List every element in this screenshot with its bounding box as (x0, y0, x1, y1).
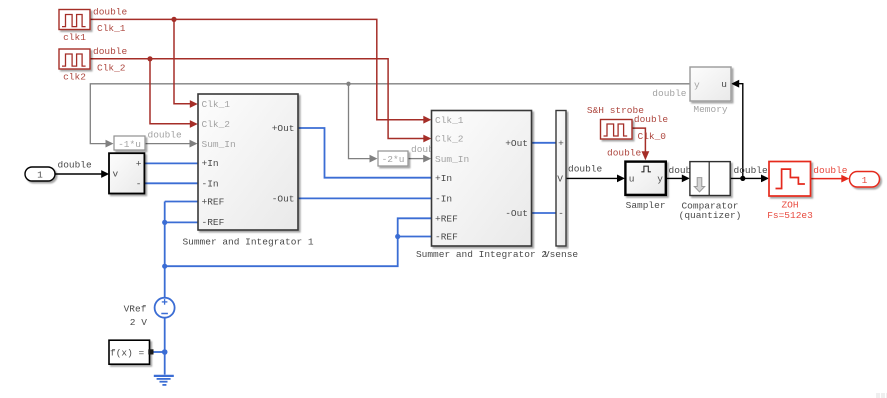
svg-text:+Out: +Out (505, 138, 528, 149)
svg-text:y: y (657, 173, 663, 184)
svg-text:+REF: +REF (435, 214, 458, 225)
svg-text:Summer and Integrator 2: Summer and Integrator 2 (416, 249, 547, 260)
svg-text:+In: +In (202, 158, 219, 169)
svg-text:Clk_1: Clk_1 (97, 23, 126, 34)
svg-text:-: - (558, 208, 564, 219)
svg-text:+: + (558, 138, 564, 149)
svg-text:-In: -In (435, 194, 452, 205)
svg-text:clk2: clk2 (63, 72, 86, 83)
svg-text:-: - (136, 178, 142, 189)
svg-text:1: 1 (862, 175, 868, 186)
svg-text:double: double (93, 46, 128, 57)
svg-text:+Out: +Out (272, 123, 295, 134)
svg-text:+REF: +REF (202, 197, 225, 208)
svg-text:-REF: -REF (435, 232, 458, 243)
svg-text:-Out: -Out (505, 208, 528, 219)
svg-text:v: v (113, 169, 119, 180)
svg-text:Clk_0: Clk_0 (638, 131, 667, 142)
svg-text:Sum_In: Sum_In (202, 139, 236, 150)
svg-text:VRef: VRef (124, 303, 147, 314)
svg-text:y: y (694, 80, 700, 91)
svg-text:Summer and Integrator 1: Summer and Integrator 1 (182, 236, 313, 247)
svg-text:V: V (557, 173, 563, 184)
svg-text:double: double (568, 163, 603, 174)
svg-text:Vsense: Vsense (544, 249, 579, 260)
svg-text:double: double (58, 159, 93, 170)
svg-text:double: double (652, 88, 687, 99)
svg-text:Sampler: Sampler (626, 200, 666, 211)
svg-text:Sum_In: Sum_In (435, 154, 469, 165)
svg-text:+In: +In (435, 173, 452, 184)
svg-text:+: + (136, 159, 142, 170)
svg-text:double: double (734, 165, 769, 176)
svg-text:double: double (634, 114, 669, 125)
svg-text:double: double (813, 165, 848, 176)
svg-text:double: double (148, 130, 183, 141)
svg-text:Clk_2: Clk_2 (202, 119, 231, 130)
svg-text:2 V: 2 V (130, 317, 147, 328)
svg-text:Memory: Memory (693, 104, 728, 115)
svg-text:clk1: clk1 (63, 32, 86, 43)
svg-text:Clk_1: Clk_1 (435, 115, 464, 126)
svg-text:-1*u: -1*u (118, 139, 141, 150)
svg-text:double: double (93, 6, 128, 17)
svg-text:double: double (607, 148, 642, 159)
svg-text:-Out: -Out (272, 194, 295, 205)
svg-text:Clk_2: Clk_2 (435, 134, 464, 145)
svg-text:(quantizer): (quantizer) (679, 210, 742, 221)
svg-text:ZOH: ZOH (781, 200, 798, 211)
svg-text:-In: -In (202, 179, 219, 190)
svg-text:u: u (629, 173, 635, 184)
svg-text:u: u (721, 79, 727, 90)
svg-text:-REF: -REF (202, 217, 225, 228)
svg-text:Clk_1: Clk_1 (202, 99, 231, 110)
svg-text:-2*u: -2*u (382, 154, 405, 165)
svg-text:1: 1 (37, 170, 43, 181)
svg-text:Fs=512e3: Fs=512e3 (767, 210, 813, 221)
svg-text:Clk_2: Clk_2 (97, 62, 126, 73)
